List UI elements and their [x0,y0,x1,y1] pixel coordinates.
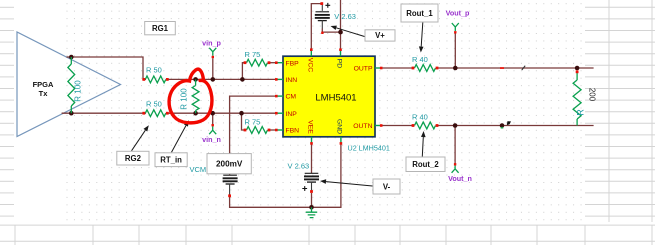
junction: vin_n tap [210,111,215,116]
svg-text:vin_n: vin_n [202,135,221,144]
svg-text:RT_in: RT_in [160,156,182,165]
wire: INN row from RG1 to INN pin [168,78,276,80]
label RG1 [145,22,176,35]
svg-text:LMH5401: LMH5401 [315,93,356,104]
junction: R200 load top [575,66,580,71]
FPGA Tx driver symbol U1 [17,32,121,137]
label RG2 with arrow [117,125,149,165]
resistor Rout_2 R 40 [412,112,439,129]
resistor Rout_1 R 40 [412,55,439,72]
junction: Vout_n tap [453,123,458,128]
svg-text:RG2: RG2 [125,154,142,163]
wire: CM pin to VCM source [230,96,276,175]
port vin_p [202,39,221,59]
label V- with arrow [320,179,400,194]
junction: RT_in R100 top [193,77,198,82]
junction: Vout_p tap [453,66,458,71]
svg-text:VEE: VEE [306,120,313,134]
voltage source V+ supply V 2.63 battery [315,2,356,34]
label Rout_1 with arrow [401,4,438,53]
svg-text:RG1: RG1 [152,24,169,33]
junction: OUTN row node [500,123,505,128]
wire: vin_p drop [212,58,214,79]
svg-text:V+: V+ [375,31,385,40]
resistor R 75 (top feedback) [244,50,271,66]
port Vout_n [448,163,472,183]
wire: OUTN row after Rout_2 to load [437,125,594,127]
svg-text:V 2.63: V 2.63 [334,12,356,21]
net color break mark on OUTP wire [500,67,504,69]
svg-text:INP: INP [286,111,298,118]
slash mark on OUTP wire [522,66,525,70]
ground symbol [306,207,317,217]
svg-text:V-: V- [383,182,391,191]
wire: Vout_p riser [454,34,456,69]
resistor RG2 R 50 (bottom) [142,100,168,117]
wire: V+ battery negative to PD rail [322,29,340,33]
svg-text:200: 200 [588,88,597,102]
svg-text:R 50: R 50 [146,66,162,75]
port vin_n [202,124,221,144]
resistor R100 FPGA internal termination, value R 100 [68,57,83,113]
wire: Vout_n drop [454,126,456,164]
svg-text:R 75: R 75 [245,118,261,127]
resistor R 75 (bottom feedback) [244,118,271,134]
label V+ with arrow [331,26,396,41]
svg-text:CM: CM [286,94,297,101]
designator U2 LMH5401 [348,143,390,152]
wire: FPGA top output to INN row [67,57,147,79]
svg-text:V 2.63: V 2.63 [288,162,310,171]
junction: FBP branch [240,77,245,82]
svg-text:FBP: FBP [286,60,300,67]
svg-text:FBN: FBN [286,128,300,135]
junction: ground node [309,205,314,210]
svg-text:PD: PD [336,59,343,69]
voltage source V- supply V 2.63 battery [288,162,320,193]
svg-text:OUTP: OUTP [354,66,373,73]
svg-text:Tx: Tx [39,89,49,98]
junction: FPGA top / R100 termination top [69,55,74,60]
svg-text:Rout_2: Rout_2 [412,160,439,169]
mouse cursor arrow on OUTN node [507,121,511,125]
svg-text:200mV: 200mV [216,160,243,169]
voltage source VCM 200mV battery [223,175,238,197]
svg-text:R 50: R 50 [146,100,162,109]
op-amp U2 LMH5401 [275,48,383,144]
wire: VCC pin up and over to V+ battery positive [311,4,321,50]
wire: FPGA bottom output / INP row [62,112,276,114]
junction: FBN branch [239,111,244,116]
label 200mV [207,154,251,174]
svg-text:R 40: R 40 [412,55,428,64]
red hand-drawn annotation circle around RT_in R100 [169,69,212,123]
resistor R 200 load [573,70,596,125]
junction: vin_p tap [211,77,216,82]
port Vout_p [446,9,470,34]
wire: VEE pin to V- battery [311,144,313,174]
svg-text:vin_p: vin_p [202,39,221,48]
designator VCM [190,165,207,174]
wire: FBP feedback branch [242,63,276,80]
wire: V- battery negative to ground node [311,193,313,207]
svg-text:Rout_1: Rout_1 [406,9,433,18]
svg-text:OUTN: OUTN [353,123,372,130]
svg-text:VCM: VCM [190,165,207,174]
svg-text:R 40: R 40 [412,112,428,121]
wire: vin_n drop [212,113,214,124]
junction: RT_in R100 bottom [193,111,198,116]
svg-text:FPGA: FPGA [33,80,54,89]
wire: OUTP to Rout_1 [382,67,413,69]
svg-text:R 75: R 75 [245,50,261,59]
svg-text:GND: GND [336,119,343,134]
resistor RT_in R 100 (circled) [180,79,200,113]
svg-text:R: R [576,109,586,116]
wire: OUTP row after Rout_1 to load [437,67,594,69]
svg-text:R 100: R 100 [74,80,83,102]
svg-text:VCC: VCC [306,58,313,72]
label RT_in with arrow [155,120,189,166]
junction: FPGA bottom / R100 termination bottom [69,111,74,116]
resistor RG1 R 50 (top) [142,66,168,83]
wire: FBN feedback branch [242,113,277,130]
svg-text:Vout_n: Vout_n [448,174,472,183]
junction: V+ rail node [338,30,343,35]
svg-text:U2 LMH5401: U2 LMH5401 [348,143,390,152]
svg-text:R 100: R 100 [180,88,189,110]
wire: VCM negative to ground bus [230,144,341,208]
svg-text:Vout_p: Vout_p [446,9,470,18]
wire: OUTN to Rout_2 [382,125,413,127]
svg-text:INN: INN [286,77,298,84]
label Rout_2 with arrow [406,131,445,172]
wire: PD rail vertical [340,0,342,50]
